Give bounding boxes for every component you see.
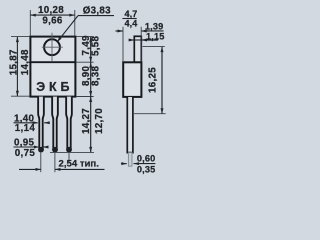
svg-text:0,35: 0,35 xyxy=(137,164,155,174)
side view: lead (upper dark part) xyxy=(127,97,133,153)
svg-text:5,58: 5,58 xyxy=(90,35,101,56)
svg-text:0,60: 0,60 xyxy=(137,153,155,163)
svg-text:14,27: 14,27 xyxy=(81,108,92,134)
dimension 2,54 тип. (lead pitch) xyxy=(19,159,105,171)
dimension 0,60/0,35 (lead end thickness) xyxy=(121,153,155,174)
dimension 15,87/14,48 (left overall height) xyxy=(8,37,31,97)
right-side extension lines xyxy=(50,37,94,153)
svg-text:2,54 тип.: 2,54 тип. xyxy=(59,159,99,170)
side view: metal tab xyxy=(134,36,141,62)
hole horizontal centerline xyxy=(42,46,63,48)
lead 1 (Э) xyxy=(38,97,44,153)
svg-text:16,25: 16,25 xyxy=(148,67,159,93)
svg-text:0,75: 0,75 xyxy=(15,148,36,159)
svg-text:15,87: 15,87 xyxy=(8,49,19,75)
lead 2 (К) xyxy=(52,97,58,153)
lead pitch extension lines xyxy=(41,152,69,172)
dimension 1,40/1,14 (wide lead width) xyxy=(14,114,50,134)
svg-text:14,48: 14,48 xyxy=(20,49,31,75)
dimension 14,27/12,70 (lead length) xyxy=(81,97,105,153)
svg-text:ЭКБ: ЭКБ xyxy=(36,80,73,94)
svg-text:Ø3,83: Ø3,83 xyxy=(83,5,111,16)
svg-text:4,4: 4,4 xyxy=(125,19,138,29)
dimension 1,39/1,15 (tab thickness) xyxy=(129,21,165,41)
dimension 4,7/4,4 (body thickness) xyxy=(116,9,149,62)
mounting hole xyxy=(44,39,60,55)
hole vertical centerline xyxy=(51,33,53,61)
dimension 0,95/0,75 (narrow lead width) xyxy=(14,138,49,159)
side view: plastic body xyxy=(123,62,141,97)
dimension 10,28/9,66 (top width) xyxy=(30,5,75,35)
svg-text:8,38: 8,38 xyxy=(90,65,101,86)
dimension 8,90/8,38 (body height) xyxy=(81,62,101,96)
dimension 7,49/5,58 (tab height) xyxy=(81,35,101,62)
svg-text:12,70: 12,70 xyxy=(94,108,105,134)
tab/body divider line xyxy=(30,61,76,63)
svg-text:1,39: 1,39 xyxy=(145,21,163,31)
svg-text:9,66: 9,66 xyxy=(42,15,63,26)
side view: lead end (thin light part) xyxy=(128,153,132,167)
lead 3 (Б) xyxy=(66,97,72,153)
dimension 16,25 (lead length, side) xyxy=(134,47,166,114)
svg-text:1,14: 1,14 xyxy=(15,123,36,134)
package body outline (front view) xyxy=(30,37,75,97)
hole diameter label Ø3,83 with leader xyxy=(57,5,114,42)
